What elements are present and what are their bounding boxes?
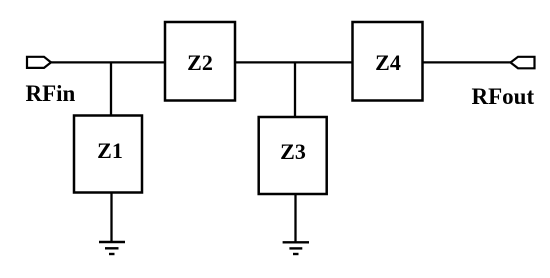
svg-text:Z3: Z3: [280, 139, 306, 164]
svg-text:RFin: RFin: [26, 81, 76, 106]
svg-text:Z1: Z1: [97, 138, 123, 163]
svg-text:Z4: Z4: [375, 50, 401, 75]
svg-text:Z2: Z2: [187, 50, 213, 75]
svg-text:RFout: RFout: [472, 84, 535, 109]
